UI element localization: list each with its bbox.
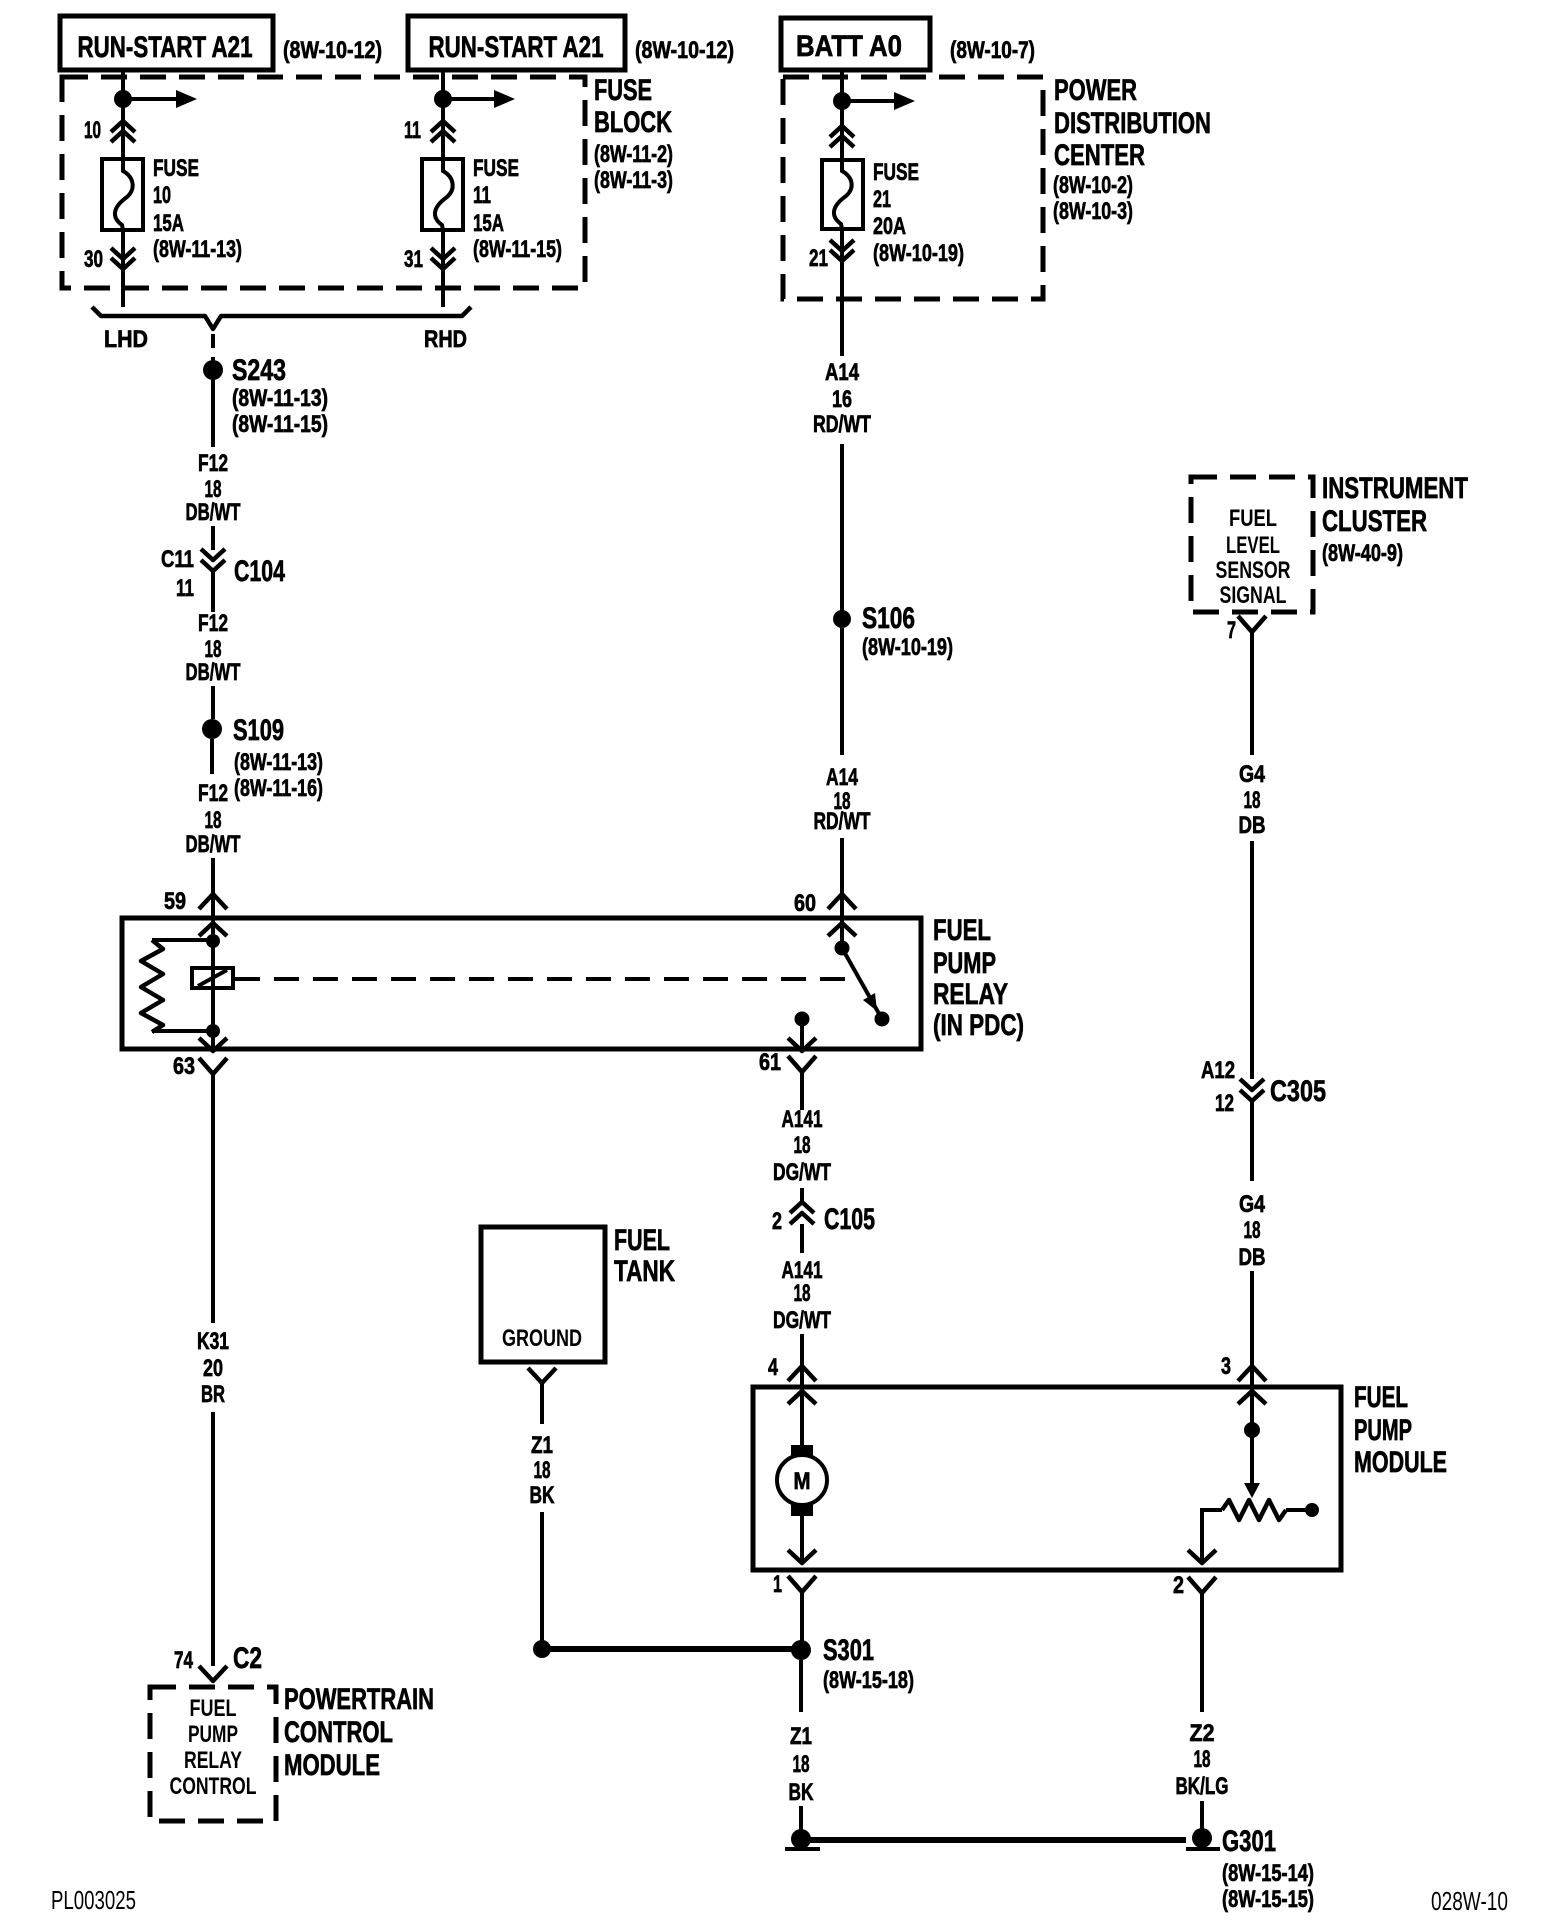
wire below S109 [210,739,214,774]
svg-text:18: 18 [1244,787,1261,814]
wire label A14 16 RD/WT [813,359,871,438]
svg-text:DISTRIBUTION: DISTRIBUTION [1054,107,1211,140]
svg-text:LHD: LHD [104,326,148,353]
svg-text:F12: F12 [198,450,228,477]
relay switch arm [842,948,882,1019]
svg-text:S243: S243 [232,354,286,387]
fuse block dashed enclosure [62,77,585,288]
svg-text:C105: C105 [824,1203,875,1236]
svg-text:(8W-10-19): (8W-10-19) [862,634,953,661]
svg-text:K31: K31 [197,1328,229,1355]
pin 2 chevron below module [1188,1577,1216,1593]
pin 63 chevron below relay [199,1058,227,1074]
svg-text:MODULE: MODULE [1354,1446,1447,1479]
pin 59 chevron [199,894,227,909]
svg-text:21: 21 [873,186,891,213]
wire label Z1 18 BK (tank) [530,1432,555,1509]
svg-text:(8W-10-12): (8W-10-12) [635,37,734,64]
ground bus wire [808,1837,1186,1843]
svg-text:12: 12 [1215,1090,1234,1117]
wire below C104 [211,571,215,612]
svg-text:PL003025: PL003025 [51,1885,136,1915]
svg-text:FUSE: FUSE [153,155,199,182]
svg-text:(8W-11-13): (8W-11-13) [234,749,323,776]
svg-text:SENSOR: SENSOR [1216,557,1291,584]
splice S109 [202,719,222,739]
svg-text:21: 21 [809,245,828,272]
svg-text:RUN-START A21: RUN-START A21 [78,31,253,64]
svg-text:DB: DB [1239,1244,1266,1271]
wire below C105 [800,1224,804,1253]
svg-text:11: 11 [404,117,421,144]
svg-text:10: 10 [84,117,101,144]
instrument cluster dashed enclosure [1191,477,1313,612]
junction node coil bottom [206,1024,220,1038]
wire tank junction to S301 [542,1646,801,1652]
pin 30 connector chevrons [111,248,135,269]
svg-text:S301: S301 [823,1634,874,1667]
pin 4 chevron [788,1366,816,1381]
wire module pin 2 down [1200,1593,1204,1712]
wire relay pin 63 to K31 label [211,1074,215,1323]
fuse 10 value labels [153,155,242,263]
coil to contact dashed link [235,977,856,981]
wire resistor bottom to coil bottom [152,1029,213,1033]
switch arm arrowhead [863,993,877,1011]
svg-text:(IN PDC): (IN PDC) [933,1009,1024,1042]
junction node on left run-start feed [114,90,132,108]
svg-text:DB/WT: DB/WT [186,831,241,858]
svg-text:59: 59 [164,888,186,915]
sender resistor right lead [1286,1508,1310,1512]
junction node on BATT feed [833,92,851,110]
svg-text:4: 4 [768,1354,778,1381]
wire feed from left RUN-START into fuse 10 [121,72,125,160]
sender resistor left lead [1202,1510,1222,1563]
pin 1 chevron inside module [788,1550,816,1563]
svg-text:31: 31 [404,246,423,273]
fuel tank title [614,1224,675,1288]
svg-text:18: 18 [534,1457,551,1484]
svg-text:INSTRUMENT: INSTRUMENT [1322,472,1468,505]
relay suppression resistor [141,940,163,1032]
fuse F21 symbol [822,160,863,229]
node RUN-START A21 (right) label box [408,16,625,70]
svg-text:(8W-11-2): (8W-11-2) [594,141,673,168]
svg-text:11: 11 [176,575,194,602]
svg-text:RD/WT: RD/WT [813,411,871,438]
pin 11 connector chevrons [431,121,455,142]
junction node coil top [206,934,220,948]
pin 10 connector chevrons [111,121,135,142]
svg-text:(8W-15-18): (8W-15-18) [823,1667,914,1694]
wire coil top to resistor [152,938,213,942]
junction node sender wiper [1244,1422,1260,1438]
pin 7 chevron below cluster [1238,616,1266,632]
LHD/RHD selection brace [92,307,471,329]
svg-text:RELAY: RELAY [184,1747,242,1774]
PCM title POWERTRAIN CONTROL MODULE [284,1683,434,1782]
svg-text:11: 11 [473,182,491,209]
connector C105 chevrons [790,1202,814,1224]
fuel pump relay box [122,918,921,1049]
wire to relay pin 59 [211,858,215,894]
connector C104 chevrons [201,549,225,571]
fuel level sender resistor [1222,1500,1286,1520]
svg-text:(8W-11-13): (8W-11-13) [153,236,242,263]
svg-text:18: 18 [794,1280,811,1307]
relay coil feed wire [211,894,215,1051]
svg-text:RUN-START A21: RUN-START A21 [429,31,604,64]
wire pin 3 to sender [1250,1390,1254,1426]
svg-text:DG/WT: DG/WT [773,1159,831,1186]
wire motor to pin 1 [800,1515,804,1563]
relay common feed wire [840,894,844,948]
wire from fuse 11 down to brace [441,230,445,307]
wire to connector C105 [800,1188,804,1203]
svg-text:18: 18 [1194,1746,1211,1773]
pin 60 chevron [828,894,856,909]
wire to module pin 4 [800,1334,804,1390]
svg-text:(8W-15-15): (8W-15-15) [1222,1886,1314,1913]
svg-text:RD/WT: RD/WT [814,808,871,835]
wire to relay pin 60 [840,838,844,894]
svg-text:PUMP: PUMP [933,947,996,980]
pin 2 chevron inside module [1188,1550,1216,1563]
svg-text:(8W-10-2): (8W-10-2) [1053,172,1133,199]
svg-text:S109: S109 [233,714,284,747]
svg-text:20: 20 [203,1355,223,1382]
svg-text:028W-10: 028W-10 [1431,1886,1508,1916]
module title FUEL PUMP MODULE [1354,1381,1447,1479]
svg-text:TANK: TANK [614,1255,675,1288]
svg-text:FUEL: FUEL [933,914,991,947]
wire feed from right RUN-START into fuse 11 [441,72,445,160]
svg-text:(8W-10-19): (8W-10-19) [873,240,964,267]
branch arrow to other circuits (PDC) [842,92,915,110]
relay output node [795,1012,810,1027]
svg-text:FUEL: FUEL [1229,505,1277,532]
svg-text:FUSE: FUSE [594,74,652,107]
svg-text:BATT A0: BATT A0 [796,30,902,63]
pin 63 chevron inside relay [199,1038,227,1051]
splice S243 [203,360,223,380]
svg-text:61: 61 [759,1049,781,1076]
wire cluster pin 7 down [1250,632,1254,755]
wire to connector C104 [211,526,215,550]
sender resistor end node [1305,1503,1319,1517]
svg-text:RHD: RHD [424,326,467,353]
wire label A141 18 DG/WT (upper) [773,1106,831,1186]
branch arrow to other circuits (left) [123,90,197,108]
wire label Z2 18 BK/LG [1176,1720,1229,1800]
svg-text:DB: DB [1239,812,1266,839]
wire label A141 18 DG/WT (lower) [773,1257,831,1334]
svg-text:(8W-10-3): (8W-10-3) [1053,198,1133,225]
fuel pump module box [753,1387,1341,1570]
svg-text:C104: C104 [234,555,285,588]
connector C305 chevrons [1240,1079,1264,1101]
svg-text:S106: S106 [862,602,915,635]
wire pin 4 to motor [800,1390,804,1449]
svg-text:(8W-11-15): (8W-11-15) [232,411,328,438]
svg-text:G301: G301 [1222,1825,1276,1858]
power distribution center dashed enclosure [783,77,1043,299]
pin 1 chevron below module [788,1576,816,1592]
svg-text:18: 18 [1244,1217,1261,1244]
wire label F12 18 DB/WT (middle) [186,610,241,686]
svg-text:BK: BK [789,1779,814,1806]
relay title FUEL PUMP RELAY (IN PDC) [933,914,1024,1042]
svg-text:74: 74 [174,1647,193,1674]
svg-text:FUEL: FUEL [614,1224,670,1257]
svg-text:C305: C305 [1270,1075,1326,1108]
svg-text:(8W-15-14): (8W-15-14) [1222,1860,1314,1887]
junction node tank ground lead [533,1640,551,1658]
fuse 21 value labels [873,159,964,267]
svg-text:BK/LG: BK/LG [1176,1773,1229,1800]
wire from fuse 10 down to brace [121,230,125,307]
svg-text:BK: BK [530,1482,555,1509]
wire label K31 20 BR [197,1328,229,1408]
wire relay pin 61 to C105 [800,1072,804,1110]
svg-text:16: 16 [832,386,852,413]
wire to module pin 3 [1250,1271,1254,1389]
wire label G4 18 DB (lower) [1239,1191,1266,1271]
svg-text:2: 2 [1173,1572,1184,1599]
pin 3 chevron [1238,1366,1266,1381]
svg-text:M: M [794,1468,811,1495]
svg-text:BLOCK: BLOCK [594,106,672,139]
svg-text:A14: A14 [826,764,858,791]
svg-text:3: 3 [1221,1353,1231,1380]
svg-text:1: 1 [773,1571,782,1598]
node RUN-START A21 (left) label box [60,16,273,70]
pin 61 chevron below relay [788,1056,816,1072]
svg-text:(8W-10-7): (8W-10-7) [950,37,1035,64]
ground symbol G301 [1186,1828,1220,1849]
svg-text:PUMP: PUMP [1354,1414,1412,1447]
svg-text:10: 10 [153,182,171,209]
PDC title POWER DISTRIBUTION CENTER [1053,74,1211,225]
svg-text:G4: G4 [1239,761,1266,788]
splice S301 [791,1640,811,1660]
svg-text:F12: F12 [198,610,228,637]
wire to splice S109 [211,686,215,719]
fuse F11 symbol [422,159,463,230]
wiper arm with arrowhead [1244,1430,1260,1498]
svg-text:20A: 20A [873,213,906,240]
pin 3 chevron inside module [1238,1391,1266,1404]
svg-text:GROUND: GROUND [502,1325,582,1352]
svg-text:F12: F12 [198,780,228,807]
svg-text:FUSE: FUSE [873,159,919,186]
fuse 11 value labels [473,155,562,263]
pin 74 chevron [199,1666,227,1681]
svg-text:SIGNAL: SIGNAL [1220,582,1287,609]
fuel pump motor M1 [777,1445,827,1516]
node FUEL LEVEL SENSOR SIGNAL [1216,505,1291,609]
svg-text:(8W-11-16): (8W-11-16) [234,775,323,802]
svg-text:Z1: Z1 [790,1723,812,1750]
svg-text:A14: A14 [825,359,860,386]
wire label G4 18 DB (upper) [1239,761,1266,839]
wire relay output to pin 61 [800,1019,804,1051]
pin 61 chevron inside relay [788,1038,816,1051]
svg-text:18: 18 [205,807,222,834]
svg-text:FUEL: FUEL [1354,1381,1408,1414]
wire fuel tank down [540,1383,544,1424]
svg-text:FUEL: FUEL [190,1695,237,1722]
svg-text:CLUSTER: CLUSTER [1322,505,1427,538]
wire to splice S106 [840,444,844,611]
pin 59 chevron inside relay [199,923,227,936]
fuse 21 top connector chevrons [830,126,854,147]
fuel tank box [481,1227,605,1362]
fuel tank pin chevron [528,1368,556,1383]
svg-text:POWER: POWER [1054,74,1137,107]
powertrain control module dashed box [150,1687,276,1821]
svg-text:(8W-11-15): (8W-11-15) [473,236,562,263]
svg-text:(8W-40-9): (8W-40-9) [1322,540,1403,567]
svg-text:BR: BR [201,1381,225,1408]
junction node contact pivot [835,941,850,956]
svg-text:18: 18 [793,1751,810,1778]
svg-text:18: 18 [794,1132,811,1159]
wire module pin 1 to S301 [800,1592,804,1644]
relay coil symbol [192,968,233,988]
svg-text:A12: A12 [1201,1057,1235,1084]
svg-text:(8W-11-13): (8W-11-13) [232,385,328,412]
wire below C305 [1250,1101,1254,1181]
svg-text:30: 30 [84,246,103,273]
svg-text:15A: 15A [153,210,184,237]
svg-text:(8W-11-3): (8W-11-3) [594,167,673,194]
ground symbol left at G301 [785,1829,820,1849]
svg-text:MODULE: MODULE [284,1749,380,1782]
fuse block title FUSE BLOCK [594,74,673,194]
svg-text:DB/WT: DB/WT [186,499,241,526]
wire to ground G301 left [799,1806,803,1830]
wire tank lead to junction [540,1512,544,1645]
svg-text:RELAY: RELAY [933,978,1008,1011]
wire label A14 18 RD/WT [814,764,871,835]
pin 21 connector chevrons [830,240,854,261]
svg-text:60: 60 [794,890,816,917]
wire fuse 21 to A14 label [840,229,844,356]
fuse F10 symbol [102,159,143,230]
svg-text:Z2: Z2 [1190,1720,1215,1747]
pin 60 chevron inside relay [828,923,856,936]
wire below S106 [840,628,844,755]
svg-text:POWERTRAIN: POWERTRAIN [284,1683,434,1716]
svg-text:C11: C11 [161,546,194,573]
pin 4 chevron inside module [788,1391,816,1404]
svg-text:7: 7 [1227,617,1236,644]
wire S243 to F12 label [211,380,215,447]
splice S106 [833,610,851,628]
svg-text:FUSE: FUSE [473,155,519,182]
svg-text:2: 2 [772,1208,782,1235]
svg-text:DG/WT: DG/WT [773,1307,831,1334]
svg-text:Z1: Z1 [531,1432,553,1459]
svg-text:LEVEL: LEVEL [1226,532,1280,559]
pin 31 connector chevrons [431,248,455,269]
wire to ground G301 [1200,1801,1204,1830]
svg-text:DB/WT: DB/WT [186,659,241,686]
wire below S301 [799,1660,803,1712]
wire label Z1 18 BK (S301) [789,1723,814,1806]
instrument cluster title [1322,472,1468,567]
svg-text:G4: G4 [1239,1191,1266,1218]
wire from PDC fuse 21 top [840,72,844,160]
switch arm end node [875,1012,890,1027]
svg-text:A141: A141 [782,1106,823,1133]
svg-text:PUMP: PUMP [188,1721,238,1748]
svg-text:(8W-10-12): (8W-10-12) [283,37,382,64]
svg-text:CONTROL: CONTROL [284,1716,393,1749]
svg-text:CENTER: CENTER [1054,139,1145,172]
wire label F12 18 DB/WT (lower) [186,780,241,858]
branch arrow to other circuits (right) [443,90,515,108]
svg-text:CONTROL: CONTROL [170,1773,257,1800]
wire to connector C305 [1250,841,1254,1079]
svg-text:63: 63 [173,1053,195,1080]
wire to PCM pin 74 [211,1412,215,1666]
junction node on right run-start feed [434,90,452,108]
node BATT A0 label box [781,18,930,70]
dashed stub from brace to S243 [211,334,215,362]
node FUEL PUMP RELAY CONTROL [170,1695,257,1800]
svg-text:C2: C2 [233,1642,262,1675]
svg-text:15A: 15A [473,210,504,237]
wire label F12 18 DB/WT (upper) [186,450,241,526]
